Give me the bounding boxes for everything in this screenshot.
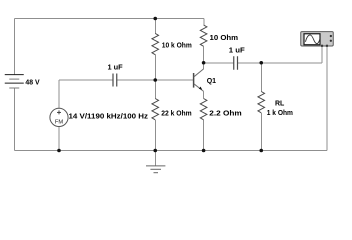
svg-text:48 V: 48 V [25, 80, 40, 87]
wire emitter lead [203, 91, 205, 98]
wire R2 bottom lead [154, 120, 156, 151]
wire C2 to scope [238, 62, 323, 64]
svg-text:Q1: Q1 [207, 78, 216, 85]
wire ground stem [154, 151, 156, 166]
svg-text:10 Ohm: 10 Ohm [210, 35, 239, 42]
node base [153, 78, 157, 82]
resistor R2 22 k Ohm [152, 99, 159, 120]
wire R4 bottom lead [203, 120, 205, 151]
svg-text:22 k Ohm: 22 k Ohm [161, 110, 192, 117]
capacitor C1 1 uF [113, 74, 117, 87]
wire R1 top lead [154, 19, 156, 34]
wire R3 top lead [203, 19, 205, 26]
svg-text:RL: RL [275, 100, 285, 107]
wire R3 bottom lead [203, 46, 205, 62]
node RL / rail [259, 149, 263, 153]
wire top rail [14, 18, 204, 20]
capacitor C2 1 uF [234, 56, 238, 70]
transistor Q1 [194, 69, 204, 92]
resistor RL 1 k Ohm [258, 92, 265, 113]
node FM / rail [57, 149, 61, 153]
node R4 / rail [202, 149, 206, 153]
wire scope right lead [326, 47, 328, 151]
node output / RL [259, 61, 263, 65]
resistor R1 10 k Ohm [152, 33, 159, 54]
svg-text:1 uF: 1 uF [108, 64, 124, 71]
resistor R3 10 Ohm [200, 25, 207, 46]
wire RL top lead [260, 63, 262, 92]
wire bottom rail [14, 150, 327, 152]
ground [146, 166, 165, 173]
node R2 / ground [153, 149, 157, 153]
svg-text:1 uF: 1 uF [229, 48, 246, 55]
svg-text:2.2 Ohm: 2.2 Ohm [209, 110, 242, 117]
node top rail / R1 [153, 17, 157, 21]
wire collector to C2 [204, 62, 234, 64]
battery V1 48 V [5, 75, 24, 88]
svg-text:1 k Ohm: 1 k Ohm [267, 110, 293, 117]
node collector [202, 61, 206, 65]
wire C1 to base [117, 79, 193, 81]
wire FM source top lead [58, 80, 60, 108]
wire collector lead [203, 63, 205, 69]
wire battery top lead [13, 19, 15, 75]
oscilloscope XSC1 [301, 32, 334, 47]
resistor R4 2.2 Ohm [200, 99, 207, 120]
svg-text:14 V/1190 kHz/100 Hz: 14 V/1190 kHz/100 Hz [69, 113, 149, 120]
FM source V2 [50, 108, 68, 126]
wire RL bottom lead [260, 113, 262, 151]
wire scope left lead [321, 47, 323, 63]
wire FM source bottom lead [58, 127, 60, 151]
wire battery bottom lead [13, 88, 15, 151]
svg-text:10 k Ohm: 10 k Ohm [162, 42, 192, 49]
svg-text:FM: FM [55, 120, 64, 126]
wire FM to C1 [59, 79, 113, 81]
wire R1-R2 mid [154, 55, 156, 99]
